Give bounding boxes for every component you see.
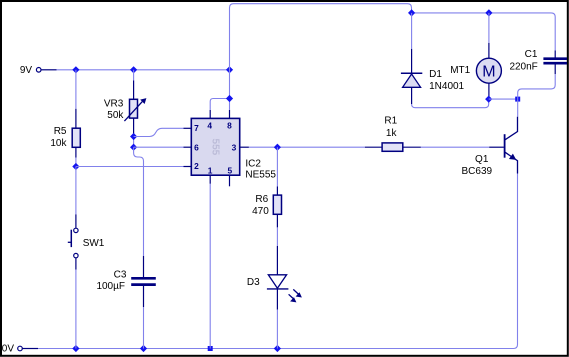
svg-text:1: 1: [208, 165, 213, 175]
svg-text:0V: 0V: [2, 344, 15, 355]
svg-text:100µF: 100µF: [96, 281, 125, 292]
wire pin3 to R1: [249, 146, 365, 148]
svg-text:Q1: Q1: [475, 154, 489, 165]
wire Vcc node to pin8: [229, 99, 231, 110]
variable resistor VR3: [124, 81, 146, 136]
svg-text:1k: 1k: [386, 128, 398, 139]
capacitor C1: [543, 51, 567, 75]
pin 5 stub: [229, 175, 231, 186]
junction C1/collector: [515, 97, 520, 102]
svg-text:NE555: NE555: [245, 169, 276, 180]
pin 4 stub: [209, 110, 211, 119]
svg-text:9V: 9V: [20, 65, 33, 76]
LED D3: [267, 246, 302, 310]
junction top/D1: [408, 9, 415, 16]
wire node to collector: [517, 99, 519, 117]
svg-text:3: 3: [232, 143, 237, 153]
pin 1 stub: [209, 175, 211, 184]
svg-text:D3: D3: [247, 277, 260, 288]
svg-text:220nF: 220nF: [509, 62, 537, 73]
junction MT1/D1/C1: [485, 96, 492, 103]
wire pin1 to 0V: [209, 184, 211, 349]
svg-text:7: 7: [194, 123, 199, 133]
svg-text:C1: C1: [525, 49, 538, 60]
wire SW1 to 0V: [75, 270, 77, 349]
svg-text:50k: 50k: [107, 110, 124, 121]
wire R5 to node2: [75, 158, 77, 167]
wire to pin6: [134, 146, 184, 148]
svg-text:C3: C3: [114, 269, 127, 280]
motor MT1: [476, 43, 501, 97]
junction top/MT1: [485, 9, 492, 16]
terminal 9V: [36, 68, 56, 73]
junction 0V/D3: [274, 345, 281, 352]
capacitor C3: [131, 256, 156, 307]
resistor R6: [273, 187, 281, 228]
junction pin3/R6: [274, 144, 281, 151]
diode D1: [401, 49, 422, 104]
svg-text:MT1: MT1: [450, 65, 470, 76]
wire 9V to R5: [75, 70, 77, 109]
svg-text:4: 4: [207, 120, 212, 130]
svg-text:VR3: VR3: [104, 98, 124, 109]
svg-text:SW1: SW1: [83, 238, 105, 249]
wire C3 to 0V: [143, 307, 145, 349]
wire motor node to collector node: [489, 98, 518, 100]
svg-text:BC639: BC639: [462, 166, 493, 177]
junction R5/SW1/pin2: [72, 163, 79, 170]
wire 0V rail: [38, 174, 518, 349]
junction 0V/pin1: [208, 346, 213, 351]
svg-text:IC2: IC2: [245, 159, 261, 170]
svg-text:555: 555: [209, 139, 220, 156]
wire D3 to 0V: [276, 310, 278, 349]
op-amp-style IC U IC2 body: [191, 118, 239, 175]
wire 9V rail: [57, 69, 230, 71]
svg-text:470: 470: [252, 206, 269, 217]
junction 9V/VR3: [130, 66, 137, 73]
junction 9V/Vcc riser: [226, 66, 233, 73]
resistor R5: [72, 109, 80, 158]
svg-text:R5: R5: [54, 126, 67, 137]
junction Vcc/pin8/pin4: [226, 95, 233, 102]
svg-text:2: 2: [194, 161, 199, 171]
pin 3 stub: [240, 146, 249, 148]
svg-text:5: 5: [227, 165, 232, 175]
terminal 0V: [18, 346, 38, 351]
wire pin4 jog: [210, 99, 229, 110]
switch SW1: [68, 214, 78, 269]
wire node2 to SW1: [75, 167, 77, 215]
pin 2 stub: [184, 166, 192, 168]
pin 8 stub: [229, 110, 231, 119]
junction VR3/pin7: [130, 133, 137, 140]
svg-text:6: 6: [194, 143, 199, 153]
svg-text:1N4001: 1N4001: [429, 81, 464, 92]
wire to pin7: [134, 128, 184, 136]
wire VR3 node to C3: [134, 147, 144, 256]
wire Vcc riser and top rail: [230, 4, 412, 99]
transistor Q1: [489, 117, 517, 174]
junction 0V/SW1: [72, 345, 79, 352]
svg-text:D1: D1: [429, 69, 442, 80]
junction 0V/C3: [140, 345, 147, 352]
resistor R1: [365, 143, 421, 151]
wire top to D1: [411, 13, 413, 49]
wire R1 to Q1 base: [421, 146, 489, 148]
pin 7 stub: [184, 127, 192, 129]
junction 9V/R5: [72, 66, 79, 73]
wire top to MT1: [488, 13, 490, 43]
pin 6 stub: [184, 146, 192, 148]
svg-text:10k: 10k: [50, 138, 67, 149]
junction VR3/pin6/C3: [130, 144, 137, 151]
svg-text:8: 8: [227, 120, 232, 130]
wire D1 to motor node: [412, 99, 489, 108]
wire C1 to collector node: [518, 74, 556, 99]
wire pin3 node to R6: [276, 147, 278, 186]
wire 9V to VR3: [133, 70, 135, 81]
wire VR3 junction link: [133, 137, 135, 148]
svg-text:R6: R6: [255, 194, 268, 205]
svg-text:R1: R1: [384, 115, 397, 126]
svg-text:M: M: [482, 63, 495, 80]
wire node2 to pin2: [76, 166, 184, 168]
wire R6 to D3: [276, 227, 278, 246]
wire top rail to C1: [412, 13, 556, 51]
